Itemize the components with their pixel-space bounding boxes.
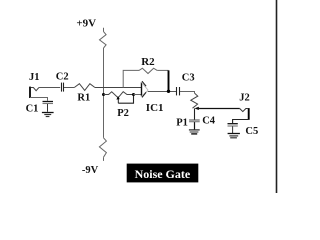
wire: R2 right post down to output node	[168, 70, 170, 91]
wire: P1 bottom to C4	[194, 109, 196, 120]
ground (below C5)	[228, 134, 240, 138]
junction dot: P2 right terminal	[132, 93, 135, 96]
wire: J2 sleeve to C5	[233, 120, 249, 124]
svg-text:-9V: -9V	[82, 165, 99, 176]
op-amp IC1	[142, 81, 149, 97]
capacitor C5	[228, 124, 238, 133]
svg-text:Noise Gate: Noise Gate	[135, 167, 191, 181]
svg-text:C1: C1	[26, 104, 39, 115]
svg-text:+9V: +9V	[76, 18, 96, 30]
wire: R2 top run right	[157, 69, 168, 71]
potentiometer P2	[104, 92, 134, 104]
capacitor C3	[177, 87, 180, 95]
wire: C2 to R1	[64, 87, 74, 89]
wire: R2 left post	[123, 70, 139, 87]
ground (below C4)	[189, 130, 200, 134]
svg-text:C2: C2	[56, 71, 69, 82]
wire: P2 to IC1 non-inverting input	[134, 94, 142, 96]
wire: J1 sleeve to C1	[30, 98, 48, 101]
wire: R1 to IC1 inverting input (crosses rail)	[95, 87, 142, 89]
svg-text:IC1: IC1	[146, 102, 164, 114]
svg-text:R2: R2	[141, 56, 155, 68]
junction dot: output node (R2 post meets output wire)	[167, 90, 170, 93]
wire: C3 to P1 top	[180, 92, 195, 94]
connector J1	[30, 87, 39, 98]
capacitor C2	[62, 83, 64, 92]
title block: Noise Gate	[127, 164, 199, 183]
wire: +9V stub	[103, 28, 105, 32]
capacitor C4	[189, 120, 200, 129]
svg-text:J1: J1	[29, 72, 40, 83]
wire: IC1 output to C3	[148, 91, 176, 93]
ground (below C1)	[42, 113, 54, 117]
svg-text:C5: C5	[245, 126, 258, 137]
resistor R2	[139, 68, 157, 73]
svg-text:P2: P2	[117, 108, 129, 119]
resistor R1	[74, 84, 95, 91]
wire: P1 wiper to J2	[197, 108, 240, 110]
junction dot: rail to P2 left terminal	[102, 93, 105, 96]
frame: right border line	[276, 0, 278, 193]
svg-text:C3: C3	[182, 73, 195, 84]
svg-text:J2: J2	[239, 92, 250, 103]
svg-text:R1: R1	[77, 92, 90, 103]
resistor (top rail, unlabeled)	[100, 32, 107, 48]
wire: J1 tip to C2	[39, 87, 60, 89]
svg-text:C4: C4	[202, 116, 216, 127]
capacitor C1	[43, 102, 54, 112]
connector J2	[240, 108, 249, 120]
potentiometer P1	[191, 93, 199, 110]
resistor (bottom rail, unlabeled)	[99, 138, 106, 157]
wire: -9V tail	[103, 157, 105, 161]
svg-text:P1: P1	[176, 118, 188, 129]
wire: rail vertical through main wire to bottom resistor	[103, 48, 105, 138]
